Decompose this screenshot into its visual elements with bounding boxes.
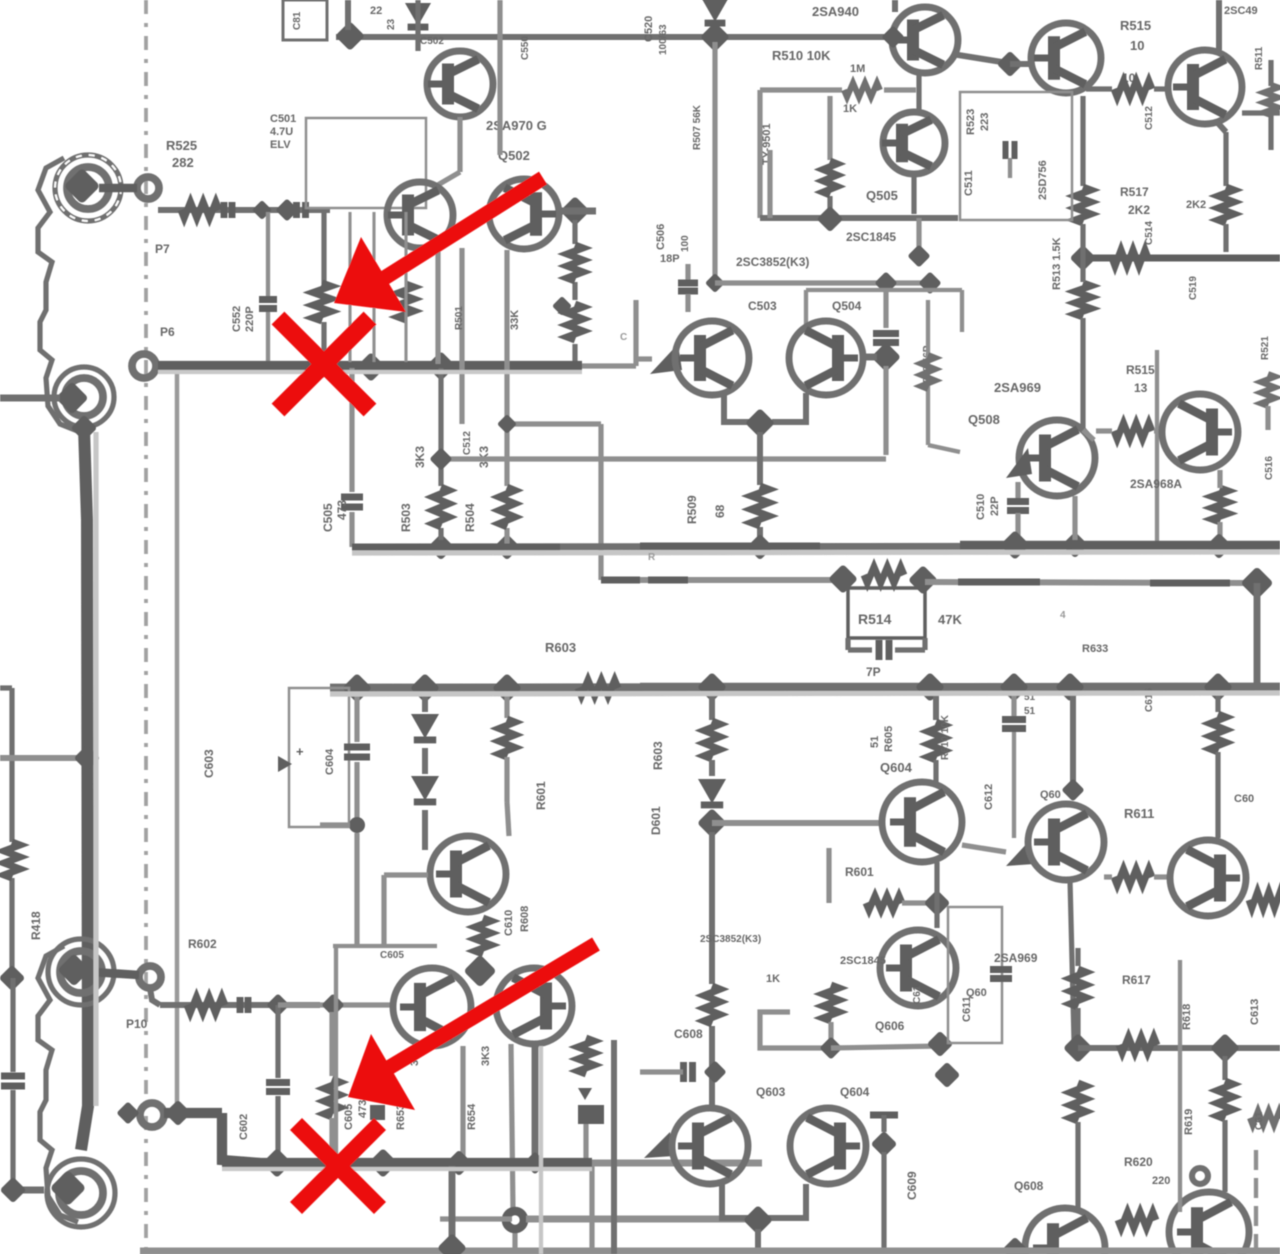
wire into J2 xyxy=(0,395,60,402)
label R601b xyxy=(845,865,874,879)
label C610 R608 xyxy=(503,906,531,936)
label C503 xyxy=(748,299,777,313)
label 2SA940 xyxy=(812,4,859,19)
label 2SC3852 xyxy=(736,255,809,269)
svg-text:220: 220 xyxy=(1152,1175,1170,1187)
label 47K xyxy=(938,612,962,627)
diode D603 xyxy=(698,760,726,805)
junction lb 7 xyxy=(1055,672,1085,702)
wire x=1073 upper xyxy=(1070,694,1076,786)
wire into Q506 xyxy=(636,356,652,361)
rail y=580 dark seg xyxy=(648,577,688,584)
svg-text:Q60: Q60 xyxy=(966,987,987,999)
wire x=1083 xyxy=(1080,96,1085,186)
junction J2 bottom xyxy=(71,415,98,442)
box Q504 xyxy=(806,290,962,332)
svg-text:R633: R633 xyxy=(1082,643,1108,655)
svg-text:R418: R418 xyxy=(29,911,43,940)
label C552 220P xyxy=(231,306,256,332)
wire x=575 down xyxy=(572,220,577,364)
wire x=886 cap xyxy=(883,290,888,328)
transistor Q606b xyxy=(880,930,956,1006)
svg-text:C506: C506 xyxy=(655,224,667,250)
svg-text:23: 23 xyxy=(386,18,397,30)
junction x=535 bus xyxy=(523,1151,546,1174)
rail y=583 extra dark xyxy=(601,577,640,584)
diode D602 xyxy=(411,748,439,802)
red X mark 2 xyxy=(296,1124,380,1208)
junction x=715 y=1072 xyxy=(703,1060,726,1083)
bias box outline xyxy=(306,118,426,208)
wire D602 to Q601 xyxy=(422,810,428,850)
label R515 10 xyxy=(1120,18,1151,53)
wire y=1048 right xyxy=(1078,1045,1280,1051)
bus upper thick y=366 xyxy=(158,361,582,371)
svg-text:R510 10K: R510 10K xyxy=(772,48,831,63)
label Q604 big xyxy=(880,760,913,775)
dark square mark xyxy=(370,1105,385,1120)
label C609 xyxy=(905,1171,919,1200)
wire ground bus thick x=87 xyxy=(81,428,88,1150)
capacitor C551 series xyxy=(224,202,232,218)
svg-text:1K: 1K xyxy=(766,973,780,985)
svg-text:C61: C61 xyxy=(1254,1111,1265,1130)
svg-text:2SA968A: 2SA968A xyxy=(1130,477,1182,491)
wire x=350 above bus xyxy=(348,212,351,362)
svg-text:C608: C608 xyxy=(674,1027,703,1041)
wire right edge top xyxy=(1268,60,1273,150)
junction rail x=1075 xyxy=(1062,532,1089,559)
transistor Q602 xyxy=(393,968,471,1046)
resistor R616 xyxy=(1070,1083,1086,1121)
extra rail mid xyxy=(640,543,820,550)
junction y=218 xyxy=(817,206,844,233)
wire Q505 collector xyxy=(916,73,921,112)
label R618 xyxy=(1181,1004,1193,1030)
extra rail seg dark2 xyxy=(960,541,1280,550)
connector jack J4 outer ring xyxy=(47,1159,115,1227)
capacitor C609 top xyxy=(870,1115,898,1132)
resistor R615 xyxy=(1070,969,1086,1007)
junction lb 5 xyxy=(915,672,945,702)
bus y=687 halo xyxy=(330,693,1280,694)
wire input lower y=1005 xyxy=(160,1002,320,1008)
connector J1 body outline xyxy=(38,158,80,432)
label R519 xyxy=(1186,199,1206,211)
wire Q505 emitter xyxy=(911,174,916,214)
svg-text:C550: C550 xyxy=(520,36,531,60)
svg-text:51: 51 xyxy=(869,736,881,748)
bus lower2 light xyxy=(592,1160,762,1167)
label R513 xyxy=(1051,237,1063,290)
wire x=937 xyxy=(934,862,939,928)
junction y=1048 right xyxy=(1210,1033,1240,1063)
svg-text:+: + xyxy=(296,744,304,759)
diode D502 xyxy=(702,0,728,23)
label C511 xyxy=(963,170,975,196)
svg-text:4: 4 xyxy=(1060,610,1066,621)
connector jack J3 outer xyxy=(48,939,114,1005)
capacitor C604 xyxy=(344,747,370,757)
resistor R625i xyxy=(187,997,225,1013)
wire x=438 emitter xyxy=(435,248,440,364)
svg-text:C612: C612 xyxy=(983,784,995,810)
connector jack J2 pin xyxy=(55,381,88,414)
svg-text:282: 282 xyxy=(172,155,194,170)
junction y=1046 xyxy=(927,1031,954,1058)
wire r510 xyxy=(1086,86,1167,91)
junction bus 2 xyxy=(356,352,386,382)
svg-text:C603: C603 xyxy=(202,749,216,778)
wire x=1257 xyxy=(1254,583,1261,687)
label 2SA968A xyxy=(1130,477,1182,491)
junction x=507 y=424 xyxy=(497,414,517,434)
svg-text:ELV: ELV xyxy=(270,139,291,151)
svg-text:R611: R611 xyxy=(1124,806,1154,821)
capacitor C612 xyxy=(1002,694,1026,838)
svg-text:18P: 18P xyxy=(660,253,680,265)
wire Q605 emitter xyxy=(722,1184,750,1218)
label 51b xyxy=(1024,706,1036,717)
label C606 xyxy=(1234,793,1254,805)
extra res right edge xyxy=(1250,1111,1280,1125)
resistor R528 xyxy=(398,284,414,320)
thick x=89 halo xyxy=(93,432,98,1106)
connector jack J4 inner ring xyxy=(59,1171,103,1215)
wire x=509 low xyxy=(511,1044,515,1254)
label R603 xyxy=(545,640,576,655)
wire y=875 left xyxy=(384,872,428,877)
svg-text:C613: C613 xyxy=(1249,999,1261,1025)
resistor R605v xyxy=(475,918,491,954)
bus lower y=687 xyxy=(330,687,1280,688)
wire J1 link xyxy=(99,184,137,193)
label 2SD756 xyxy=(1037,160,1049,200)
label C506 18P xyxy=(655,224,680,265)
wire x=936 upper xyxy=(933,694,939,720)
wire x=712 down xyxy=(709,832,715,1106)
wire y=116 right xyxy=(1242,110,1280,115)
svg-text:Q502: Q502 xyxy=(498,148,530,163)
transistor Q608r xyxy=(1170,840,1246,916)
label C605 473 xyxy=(343,1100,369,1130)
connector jack J3 pin xyxy=(57,953,90,986)
label C618b xyxy=(912,985,923,1004)
resistor R512b xyxy=(1075,283,1091,317)
transistor Q603c xyxy=(496,968,572,1044)
label C505 473 xyxy=(321,500,349,532)
red arrow 1 xyxy=(334,178,543,312)
svg-text:R521: R521 xyxy=(1260,336,1271,360)
wire x=884 down xyxy=(881,1152,886,1254)
capacitor C611 xyxy=(990,970,1012,979)
box C604 xyxy=(289,688,349,827)
label C612 xyxy=(983,784,995,810)
resistor R609 xyxy=(928,722,944,760)
resistor R512 xyxy=(1075,187,1091,223)
emitter arrow Q506 xyxy=(650,344,682,374)
svg-text:R523: R523 xyxy=(965,109,977,135)
svg-text:2SA940: 2SA940 xyxy=(812,4,859,19)
wire x=1083 low xyxy=(1080,224,1085,430)
rail y=547 xyxy=(352,546,1280,547)
wire x=712 upper xyxy=(709,694,715,720)
wire y=258 thick xyxy=(1083,255,1280,262)
wire x=760 down xyxy=(757,432,763,540)
label R604 xyxy=(534,781,548,810)
vertical wire x=177 xyxy=(175,373,180,1113)
wire Q511 collector xyxy=(1216,0,1222,50)
wire x=13 low xyxy=(10,978,15,1188)
connector jack J3 inner xyxy=(60,951,102,993)
test point circle xyxy=(1192,1168,1208,1184)
svg-text:R618: R618 xyxy=(1181,1004,1193,1030)
x=535 halo xyxy=(539,1046,543,1254)
wire x=758 down xyxy=(755,1229,761,1254)
svg-text:C503: C503 xyxy=(748,299,777,313)
rail y=580 left xyxy=(601,577,843,583)
label C520 xyxy=(643,16,669,55)
junction y=1219 b xyxy=(749,1219,751,1221)
transistor Q507 xyxy=(789,321,863,395)
wire x=406 above bus xyxy=(404,212,407,362)
label C616 xyxy=(1254,1111,1265,1130)
wire base Q510 xyxy=(1010,61,1031,67)
box R514 xyxy=(848,588,925,638)
label 22 xyxy=(370,5,397,30)
svg-text:C604: C604 xyxy=(324,748,336,775)
label Q604L xyxy=(840,1085,870,1099)
svg-text:R610 10K: R610 10K xyxy=(940,714,951,760)
wire bus to right net xyxy=(582,300,636,366)
emitter arrow Q607 xyxy=(1006,840,1034,866)
wire x=614 low xyxy=(611,1040,617,1254)
wire Q507 link xyxy=(862,354,877,361)
wire C604 v xyxy=(354,694,359,820)
junction y=758 xyxy=(74,745,101,772)
transistor Q503 xyxy=(387,182,453,248)
label right texts xyxy=(1260,336,1275,480)
box C611 xyxy=(948,907,1002,1043)
junction bl2 a xyxy=(165,1100,192,1127)
resistor R506 xyxy=(567,304,583,340)
resistor R610 xyxy=(866,896,902,910)
wire x=831 xyxy=(828,1022,833,1044)
label C608 xyxy=(674,1027,703,1041)
svg-text:C519: C519 xyxy=(1188,276,1199,300)
junction x=12 top xyxy=(0,965,25,992)
diode D601 xyxy=(411,694,439,740)
label 33K xyxy=(509,310,521,330)
junction x=937 y=903 xyxy=(924,890,951,917)
svg-text:R603: R603 xyxy=(651,741,665,770)
label 2SA969L xyxy=(994,951,1038,965)
svg-text:R514: R514 xyxy=(858,611,892,627)
svg-text:R507 56K: R507 56K xyxy=(692,104,703,150)
resistor R516 xyxy=(1114,423,1152,439)
junction li b xyxy=(321,993,344,1016)
loop lower wire xyxy=(826,848,831,903)
resistor R503 xyxy=(433,487,449,527)
label P10 xyxy=(126,1017,148,1031)
svg-text:Q603: Q603 xyxy=(756,1085,786,1099)
wire y=823 xyxy=(712,820,880,826)
label R653 xyxy=(395,1046,421,1130)
svg-text:D601: D601 xyxy=(649,806,663,835)
resistor R510 xyxy=(1114,81,1152,97)
bottom rail xyxy=(140,1248,1280,1254)
svg-text:R608: R608 xyxy=(519,906,531,932)
wire y=459 long xyxy=(442,456,886,461)
rail y=583 right xyxy=(925,582,1244,583)
svg-text:C502: C502 xyxy=(420,36,444,47)
label R523 223 xyxy=(965,109,991,135)
noise blob 3 xyxy=(620,332,627,343)
wire x=936 to Q xyxy=(933,760,938,782)
wire x=592 xyxy=(589,1163,594,1254)
capacitor C505 wire xyxy=(349,368,354,547)
junction R514 right xyxy=(908,565,938,595)
label R510 10K xyxy=(772,48,831,63)
resistor R627 shunt xyxy=(324,1012,340,1158)
svg-text:R504: R504 xyxy=(463,503,477,532)
svg-text:4.7U: 4.7U xyxy=(270,126,293,138)
resistor R612r xyxy=(1249,892,1280,908)
connector J3 body outline xyxy=(38,946,78,1222)
label R602 xyxy=(188,937,217,951)
resistor R513h xyxy=(1112,250,1148,266)
junction R514 left xyxy=(828,564,858,594)
wire into Q607 xyxy=(962,845,1006,852)
svg-text:C512: C512 xyxy=(462,431,473,455)
transistor Q512 xyxy=(1162,394,1238,470)
svg-text:C512: C512 xyxy=(1144,106,1155,130)
svg-text:2K2: 2K2 xyxy=(1186,199,1206,211)
resistor R619 xyxy=(1217,1081,1233,1119)
svg-text:C611: C611 xyxy=(961,996,973,1022)
capacitor C517 7P xyxy=(848,638,925,660)
junction C609 xyxy=(871,1131,898,1158)
label C550 xyxy=(520,36,531,60)
junction lb 3 xyxy=(492,673,522,703)
svg-text:473: 473 xyxy=(357,1100,369,1118)
label Q607 xyxy=(1040,789,1061,801)
label 56P xyxy=(922,345,933,390)
wire x=1226 low xyxy=(1223,224,1228,252)
svg-text:C81: C81 xyxy=(292,11,303,30)
svg-text:2SA970 G: 2SA970 G xyxy=(486,118,547,133)
junction x=1073 xyxy=(1061,778,1084,801)
label C602 xyxy=(238,1114,250,1140)
wire Q508 down xyxy=(1072,496,1077,540)
wire x=770 stub xyxy=(767,150,772,218)
wire Q507 emitter xyxy=(772,393,806,422)
svg-text:Q60: Q60 xyxy=(1040,789,1061,801)
feedback loop wire xyxy=(760,90,916,218)
junction input b xyxy=(275,198,298,221)
bus lower2 seg a xyxy=(164,1108,222,1118)
capacitor C505 xyxy=(341,497,363,507)
junction mid x=575 xyxy=(552,296,572,316)
wire x=500 top xyxy=(497,0,502,155)
label C603 xyxy=(202,749,216,778)
wire x=1225 seg2 xyxy=(1222,1120,1227,1192)
label C615 xyxy=(1144,688,1155,712)
svg-text:R617: R617 xyxy=(1122,973,1151,987)
resistor R508 xyxy=(823,161,837,195)
label C613 xyxy=(1249,999,1261,1025)
svg-text:C605: C605 xyxy=(343,1104,355,1130)
svg-text:22: 22 xyxy=(370,5,382,17)
svg-text:R654: R654 xyxy=(466,1103,478,1130)
capacitor C552 wire xyxy=(266,212,270,362)
transistor Q601 xyxy=(430,836,506,912)
resistor R626 xyxy=(578,1038,594,1100)
wire collector link xyxy=(952,54,1008,63)
label R509 68 xyxy=(685,495,727,524)
resistor R606 xyxy=(704,721,720,759)
junction lb 4 xyxy=(697,672,727,702)
junction lb 6 xyxy=(999,672,1029,702)
resistor R604 xyxy=(499,694,515,836)
label C501 xyxy=(270,113,296,151)
wire x=374 above bus xyxy=(372,212,375,362)
wire x=418 xyxy=(415,0,420,51)
svg-text:2SC3852(K3): 2SC3852(K3) xyxy=(700,934,761,945)
transistor Q610 xyxy=(1025,1208,1105,1254)
wire x=507 xyxy=(504,250,509,544)
top bus halo xyxy=(158,370,582,374)
svg-text:C602: C602 xyxy=(238,1114,250,1140)
wire stub x=348 up xyxy=(345,0,351,30)
resistor R520 xyxy=(1212,488,1228,522)
label C512 xyxy=(462,431,473,455)
svg-text:C610: C610 xyxy=(503,910,515,936)
label R605 51 xyxy=(869,726,895,752)
junction lb 2 xyxy=(410,673,440,703)
svg-text:R602: R602 xyxy=(188,937,217,951)
junction Q502 base xyxy=(560,196,590,226)
wire x=330 down to bus xyxy=(321,210,326,362)
wire left col x=12 xyxy=(0,688,12,972)
wire top rail y=37 xyxy=(336,34,892,40)
connector jack J4 pin xyxy=(50,1170,87,1207)
bus lower2 seg b xyxy=(222,1158,592,1168)
connector jack J2 inner ring xyxy=(65,378,103,416)
wire y=283 xyxy=(715,280,932,285)
label Q503t xyxy=(498,148,530,163)
dash-dot chassis boundary line xyxy=(144,0,148,1254)
connector jack J1 pin xyxy=(64,168,101,205)
wire Q511 emitter xyxy=(1217,122,1226,186)
small box top-left xyxy=(283,0,327,40)
junction rail x=1015 xyxy=(1000,530,1030,560)
junction x=1078 y=1048 xyxy=(1063,1033,1093,1063)
label C519 xyxy=(1188,276,1199,300)
label Q504 xyxy=(832,299,862,313)
resistor R504 xyxy=(499,487,515,527)
svg-text:7P: 7P xyxy=(866,665,881,679)
svg-text:C520: C520 xyxy=(643,16,655,42)
wire x=1078 seg3 xyxy=(1075,1122,1080,1208)
junction x=452 bottom xyxy=(437,1233,467,1254)
wire x=278 down xyxy=(275,1005,280,1158)
resistor R522 xyxy=(921,355,935,389)
junction y=64 xyxy=(997,51,1024,78)
capacitor C601L xyxy=(240,997,248,1013)
connector jack J2 outer ring xyxy=(54,367,114,427)
wire x=463 xyxy=(460,1046,465,1158)
